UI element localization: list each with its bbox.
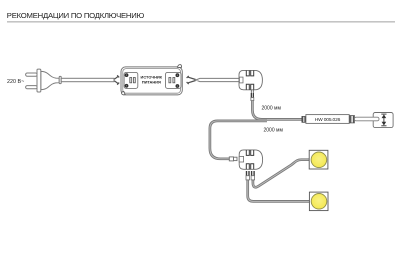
svg-text:220 В~: 220 В~	[7, 79, 24, 85]
svg-text:РЕКОМЕНДАЦИИ ПО ПОДКЛЮЧЕНИЮ: РЕКОМЕНДАЦИИ ПО ПОДКЛЮЧЕНИЮ	[7, 11, 145, 20]
svg-text:HW 005.026: HW 005.026	[315, 117, 341, 123]
svg-text:2000 мм: 2000 мм	[264, 128, 284, 134]
svg-text:ПИТАНИЯ: ПИТАНИЯ	[142, 80, 161, 85]
svg-text:2000 мм: 2000 мм	[262, 106, 282, 112]
